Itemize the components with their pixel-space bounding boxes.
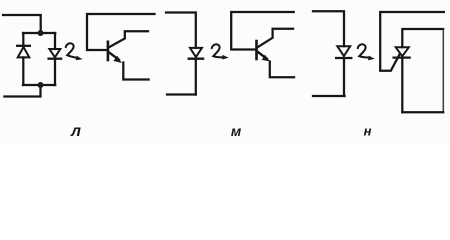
svg-text:м: м [231, 123, 242, 139]
svg-text:л: л [70, 123, 81, 140]
svg-text:н: н [364, 124, 372, 139]
